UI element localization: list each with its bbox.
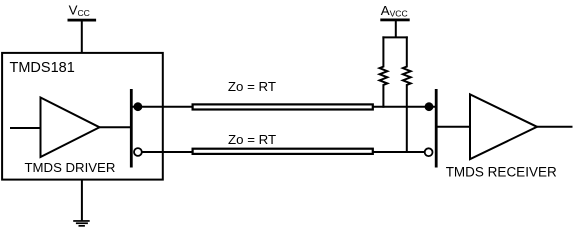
svg-text:AVCC: AVCC — [381, 3, 408, 19]
bubble receiver inverting input — [425, 148, 433, 156]
resistor R2 pull-up right — [403, 36, 411, 153]
resistor R1 pull-up left — [380, 36, 388, 107]
transmission line T1 — [193, 104, 373, 109]
wire receiver input — [437, 126, 470, 128]
wire driver input — [10, 127, 41, 129]
wire bottom line left segment — [142, 151, 193, 153]
IC U1 TMDS181 box — [2, 53, 163, 180]
power rail AVCC bar — [380, 19, 409, 22]
svg-text:TMDS DRIVER: TMDS DRIVER — [25, 160, 116, 175]
junction dot driver true output — [134, 102, 143, 111]
ground — [73, 220, 90, 227]
svg-text:VCC: VCC — [69, 3, 90, 19]
wire bottom line right segment — [372, 151, 424, 153]
wire AVCC stem — [395, 21, 397, 38]
wire top line left segment — [132, 106, 193, 108]
connector bar left output pins — [130, 89, 133, 168]
svg-text:Zo = RT: Zo = RT — [228, 132, 276, 147]
wire driver output — [100, 126, 132, 128]
transmission line T2 — [193, 149, 373, 154]
junction dot receiver true input — [425, 102, 434, 111]
wire top line right segment — [372, 106, 436, 108]
wire ground stem — [81, 179, 83, 221]
svg-text:TMDS181: TMDS181 — [10, 60, 75, 76]
bubble driver inverting output — [134, 148, 142, 156]
op-amp buffer U1 TMDS driver — [41, 98, 100, 158]
connector bar right receiver pins — [435, 89, 438, 168]
svg-text:TMDS RECEIVER: TMDS RECEIVER — [446, 164, 557, 179]
wire receiver output — [537, 126, 573, 128]
wire resistor top bus — [382, 36, 407, 38]
op-amp buffer TMDS receiver — [470, 94, 537, 159]
power rail VCC bar — [68, 19, 97, 22]
wire VCC stem — [81, 21, 83, 54]
svg-text:Zo = RT: Zo = RT — [228, 79, 276, 94]
